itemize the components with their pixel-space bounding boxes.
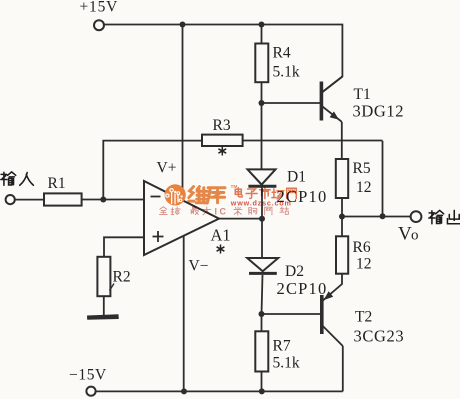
node input / feedback junction [100, 197, 106, 203]
node output / R5 / R6 junction [339, 214, 345, 220]
node output / feedback junction [380, 213, 386, 219]
op-amp plus input symbol [153, 231, 164, 242]
transistor Q T1 [321, 77, 342, 122]
svg-text:C: C [220, 207, 227, 217]
resistor R2 tick mark [110, 284, 115, 291]
svg-text:R7: R7 [273, 338, 291, 355]
svg-text:3DG12: 3DG12 [353, 102, 405, 121]
wire -15V rail [96, 390, 343, 392]
wire R6 top lead [341, 217, 343, 237]
wire op-amp plus input to R2 [104, 237, 144, 256]
wire op-amp output [219, 218, 262, 220]
wire V- supply from op-amp [183, 236, 185, 391]
resistor R6 [336, 236, 348, 273]
wire T2 collector to negative rail [342, 346, 344, 391]
op-amp minus input symbol [151, 196, 161, 198]
wire R6 to T2 emitter [323, 274, 343, 301]
resistor R1 [44, 193, 82, 205]
wire R5 bottom lead [341, 198, 343, 217]
terminal -15V [86, 387, 95, 396]
svg-text:V+: V+ [157, 160, 177, 177]
node op-amp output / D1 / D2 junction [259, 216, 265, 222]
wire V+ supply to op-amp [182, 25, 184, 201]
wire D1 cathode [261, 188, 263, 219]
resistor R3 [202, 135, 243, 146]
svg-text:www.dzsc.com: www.dzsc.com [230, 198, 292, 207]
svg-text:3CG23: 3CG23 [354, 327, 405, 346]
wire R1 to op-amp inverting input [82, 199, 144, 201]
svg-text:5.1k: 5.1k [273, 355, 300, 372]
svg-text:T2: T2 [355, 309, 372, 326]
svg-text:R1: R1 [48, 175, 66, 192]
svg-text:2CP10: 2CP10 [277, 279, 328, 298]
svg-text:V: V [398, 224, 412, 245]
label R3 asterisk [218, 147, 226, 156]
svg-text:R4: R4 [273, 45, 291, 62]
watermark 维库电子市场网 [159, 184, 296, 217]
node rail / V- junction [181, 388, 187, 394]
terminal +15V [94, 20, 104, 30]
diode D2 [247, 258, 278, 273]
wire R4 bottom lead [261, 82, 263, 103]
resistor R5 [336, 159, 348, 198]
op-amp U A1 [144, 181, 219, 255]
wire R3 to output node [243, 141, 383, 217]
svg-text:D1: D1 [287, 169, 306, 186]
svg-text:5.1k: 5.1k [273, 64, 300, 81]
svg-text:T1: T1 [354, 86, 371, 103]
label input 输入 [1, 172, 34, 185]
svg-text:12: 12 [356, 179, 372, 196]
wire R2 to ground [103, 296, 105, 315]
wire R4 top lead [261, 25, 263, 44]
node top rail / R4 junction [259, 22, 265, 28]
node R4 / T1 base / D1 junction [259, 100, 265, 106]
node rail / R7 junction [259, 388, 265, 394]
svg-text:R6: R6 [353, 239, 371, 256]
svg-text:−15V: −15V [69, 367, 107, 384]
svg-text:R2: R2 [113, 269, 131, 286]
svg-text:I: I [215, 207, 218, 217]
resistor R4 [255, 44, 268, 83]
wire D2 cathode [262, 275, 263, 314]
svg-text:D2: D2 [285, 263, 304, 280]
svg-text:o: o [411, 228, 419, 244]
diode D1 [248, 169, 277, 186]
node top rail / V+ supply junction [180, 22, 186, 28]
wire R7 bottom lead [261, 372, 263, 392]
svg-text:V−: V− [189, 258, 209, 275]
wire feedback up to R3 [103, 141, 202, 200]
transistor Q T2 [322, 291, 343, 346]
wire T2 base [262, 313, 321, 315]
terminal output [411, 211, 422, 222]
ground [87, 314, 119, 320]
svg-text:R5: R5 [353, 160, 371, 177]
wire R7 top lead [261, 314, 263, 331]
svg-text:R3: R3 [213, 117, 231, 134]
wire top +15V rail and T1 collector [104, 25, 343, 93]
resistor R7 [255, 331, 268, 371]
svg-text:A1: A1 [211, 226, 231, 245]
svg-text:+15V: +15V [80, 0, 119, 16]
watermark logo circle [165, 184, 186, 205]
wire D2 anode [261, 219, 263, 257]
label A1 asterisk [217, 245, 225, 254]
svg-text:12: 12 [356, 256, 372, 273]
wire input to R1 [15, 199, 44, 201]
resistor R2 [97, 257, 110, 296]
wire D1 anode from node [261, 103, 263, 169]
terminal input [6, 195, 15, 204]
wire output [342, 216, 410, 218]
wire T1 emitter to R5 [341, 122, 343, 159]
node D2 / T2 base / R7 junction [259, 311, 265, 317]
label output 输出 [429, 210, 460, 223]
wire T1 base [262, 102, 321, 104]
